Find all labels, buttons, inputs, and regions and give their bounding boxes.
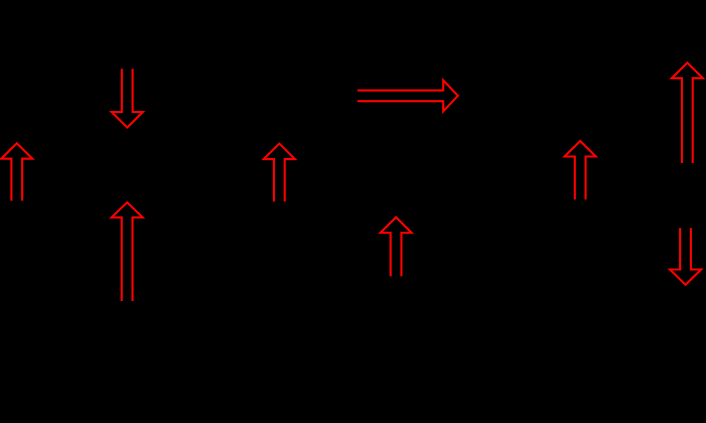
arrow H up (x~396 lower): [380, 217, 411, 276]
arrow G up (x~127 lower): [112, 202, 143, 301]
arrow D right (top middle): [358, 80, 458, 111]
arrow E up (x~580): [565, 141, 596, 200]
arrow F up (right edge tall): [672, 63, 703, 163]
arrow C up (x~280): [264, 144, 295, 202]
arrow A down (top-left column): [112, 69, 143, 128]
arrow B up (left edge): [1, 143, 32, 201]
arrow I down (right edge lower): [670, 228, 701, 285]
